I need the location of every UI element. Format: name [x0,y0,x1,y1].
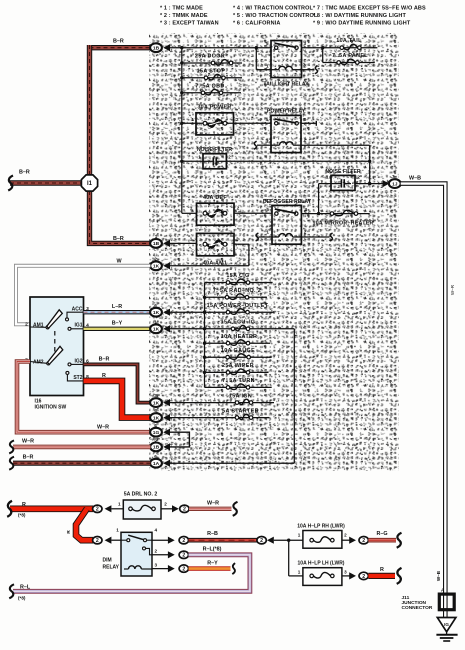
svg-text:1: 1 [154,319,157,324]
wire R-G [368,538,396,543]
svg-text:* 5 : W/O TRACTION CONTROL: * 5 : W/O TRACTION CONTROL [233,13,318,19]
svg-text:1: 1 [118,501,121,506]
DIM relay coil [124,568,129,570]
svg-text:1K: 1K [153,415,160,421]
accessory fuse rail [204,283,206,388]
power relay coil [271,144,280,146]
svg-text:R–Y: R–Y [207,560,218,566]
svg-text:4: 4 [155,527,158,532]
svg-text:5: 5 [154,438,157,443]
wire W-R DRL out [189,507,231,511]
ignition switch link dashes [54,331,56,353]
fuse 25A DOOR [182,62,242,64]
paper halftone texture [149,33,399,471]
svg-text:CONNECTOR: CONNECTOR [402,605,433,611]
svg-text:* 7 : TMC MADE EXCEPT 5S–FE W/: * 7 : TMC MADE EXCEPT 5S–FE W/O ABS [313,5,426,11]
svg-text:R–B: R–B [207,531,218,537]
connector 1J [383,180,390,187]
svg-text:R–G: R–G [376,531,387,537]
connector 1B top [150,43,162,52]
svg-text:3: 3 [304,41,307,46]
ground IG [437,618,456,632]
ignition switch ACC contact [66,318,69,321]
svg-text:5A STARTER: 5A STARTER [222,408,259,414]
svg-text:1A: 1A [153,461,160,467]
svg-text:RELAY: RELAY [103,564,120,570]
wire DIM pin3 out [152,568,168,570]
ignition switch IG2 contact [68,363,71,366]
svg-text:2: 2 [304,138,307,143]
svg-text:10A GAUGE: 10A GAUGE [221,348,255,354]
wire R DRL feed [10,505,93,512]
wire 40A AM1 pin2 to 1K-2 [234,243,249,245]
svg-text:1: 1 [298,569,301,574]
node 2 R-Y [179,565,188,572]
svg-text:W–R: W–R [207,501,219,507]
svg-text:IG2: IG2 [74,359,82,365]
wire R ST2 [84,381,151,418]
svg-text:DEFOGGER RELAY: DEFOGGER RELAY [263,199,312,205]
svg-text:R: R [102,373,106,379]
wire defogger relay pin3 junction [301,213,318,215]
svg-text:2: 2 [182,553,185,559]
node 2 R-G [359,537,368,544]
svg-text:2: 2 [236,117,239,122]
svg-text:* 2 : TMMK MADE: * 2 : TMMK MADE [160,13,208,19]
svg-text:1B: 1B [153,445,160,451]
svg-text:10A H–LP LH (LWR): 10A H–LP LH (LWR) [298,560,345,566]
svg-text:1J: 1J [392,181,398,187]
svg-text:2: 2 [96,538,99,544]
ignition switch AM2 contact [30,362,47,364]
svg-text:B–R: B–R [19,170,30,176]
noise filter 1 [182,160,203,162]
svg-text:ST2: ST2 [73,375,82,381]
fuse 7.5A TURN [205,386,272,388]
wire R-Y [189,566,231,571]
svg-text:2: 2 [155,549,158,554]
svg-text:W: W [116,258,122,264]
fuse 40A DEF [197,203,235,225]
junction connector J11 [439,594,454,610]
svg-text:1B: 1B [153,46,160,52]
svg-text:7: 7 [392,174,395,179]
svg-text:1: 1 [191,117,194,122]
fuse 15A CIG [205,282,273,284]
svg-text:IG1: IG1 [74,323,82,329]
svg-text:5: 5 [266,117,269,122]
svg-text:15A ECU–IG: 15A ECU–IG [221,319,256,325]
wire R-L to bottom run [13,555,250,592]
wire H-LP LH branch [288,540,290,576]
wire defogger relay pin1 stub [259,236,273,238]
wire defogger relay pin2 stub [301,236,329,238]
svg-text:7. 5A TURN: 7. 5A TURN [222,378,255,384]
svg-text:DIM: DIM [103,557,112,563]
fuse 7.5A RAD-NO.2 [205,296,268,298]
svg-text:1: 1 [190,237,193,242]
svg-text:7. 5A RAD–NO. 2: 7. 5A RAD–NO. 2 [213,288,261,294]
fuse 10A MIRROR-HEATER [319,213,370,215]
svg-text:W–R: W–R [22,438,34,444]
svg-text:R–L(*8): R–L(*8) [203,546,222,552]
svg-text:* 3 : EXCEPT TAIWAN: * 3 : EXCEPT TAIWAN [160,20,219,26]
svg-text:2: 2 [303,63,306,68]
connector 1G pin4 [150,428,162,437]
noise filter 2 [331,175,355,190]
fuse 40A AM1 [170,242,197,244]
wire R-B [189,538,258,543]
svg-text:1K: 1K [153,400,160,406]
fuse 10A HEATER [205,342,271,344]
svg-text:2: 2 [362,538,365,544]
svg-text:W–B: W–B [436,570,441,581]
svg-text:5A DRL NO. 2: 5A DRL NO. 2 [124,491,158,497]
svg-text:25A WIPER: 25A WIPER [222,363,254,369]
svg-text:POWER RELAY: POWER RELAY [267,109,306,115]
svg-text:3: 3 [154,393,157,398]
svg-text:3: 3 [304,117,307,122]
fuse 15A STOP [182,77,242,79]
fuse 25A WIPER [205,371,269,373]
fuse 15A POWER-OUTLET [170,311,274,313]
wire taillight relay coil feed [255,46,258,49]
feed rail [181,48,183,214]
wire B-R battery feed [10,180,90,185]
svg-text:ACC: ACC [72,306,83,312]
svg-text:(*8): (*8) [18,513,26,518]
wire power relay pin1 stub [257,144,271,146]
svg-text:2: 2 [182,538,185,544]
svg-text:TAILLIGHT RELAY: TAILLIGHT RELAY [263,82,309,88]
main feed line from 1B [170,47,271,49]
svg-text:I1: I1 [87,181,93,187]
svg-text:3: 3 [155,563,158,568]
DIM relay contacts [121,539,127,541]
svg-text:R: R [22,502,26,508]
svg-text:1K: 1K [153,310,160,316]
svg-text:1K: 1K [153,327,160,333]
svg-text:15A POWER–OUTLET: 15A POWER–OUTLET [207,303,269,309]
connector 1A pin6 [150,459,162,468]
wire power relay pin2 to rail [301,144,370,146]
wire power relay pin3 stub [301,122,316,124]
svg-text:2: 2 [154,256,157,261]
svg-text:2: 2 [164,501,167,506]
fuse 15A IGN [170,402,274,404]
svg-text:30A POWER: 30A POWER [197,104,231,110]
fuse 10A TAIL [302,47,378,49]
connector 1K pin8 [150,413,162,422]
connector 1K pin6 [150,308,162,317]
ignition switch IG1 contact [68,327,71,330]
wire 1A-6 to IG1 rail [170,462,294,464]
svg-text:1: 1 [190,206,193,211]
svg-text:15A CIG: 15A CIG [226,273,249,279]
svg-text:B–Y: B–Y [112,321,123,327]
svg-text:1: 1 [266,139,269,144]
fuse 10A GAUGE [205,356,272,358]
node 2 R-L [179,551,188,558]
svg-text:(*8): (*8) [18,596,26,601]
svg-text:2: 2 [228,155,231,160]
svg-text:1: 1 [298,532,301,537]
svg-text:7. 5A OBD: 7. 5A OBD [195,83,224,89]
svg-text:15A IGN: 15A IGN [229,393,252,399]
fuse 15A ECU-IG [170,328,294,330]
node 2 DRL in [93,505,102,512]
svg-text:2: 2 [96,507,99,513]
connector 1K pin3 [150,398,162,407]
wire DIM pin2 out [152,554,168,556]
svg-text:R: R [66,530,72,534]
wire W-R AM2 [17,362,150,433]
connector 1B pin1 [150,239,162,248]
svg-text:2: 2 [182,567,185,573]
fuse 5A STARTER [170,417,270,419]
svg-text:10A TAIL: 10A TAIL [336,38,362,44]
fuse 30A POWER [182,122,271,124]
wire L-R ACC [84,310,151,314]
wire W-B to ground [401,184,446,618]
node I1 junction [81,175,97,191]
svg-text:W–R: W–R [97,424,109,430]
connector 1K pin1 [150,324,162,333]
svg-text:2: 2 [362,574,365,580]
svg-text:1: 1 [266,63,269,68]
svg-text:2: 2 [237,206,240,211]
svg-text:IGNITION SW: IGNITION SW [35,404,67,410]
svg-text:W–R: W–R [450,284,455,295]
svg-text:10A H–LP RH (LWR): 10A H–LP RH (LWR) [297,523,345,529]
svg-text:* 4 : W/ TRACTION CONTROL: * 4 : W/ TRACTION CONTROL [233,5,314,11]
svg-text:NOISE FILTER: NOISE FILTER [325,169,361,175]
svg-text:B–R: B–R [113,38,124,44]
svg-text:2: 2 [183,507,186,513]
svg-text:* 8 : W/ DAYTIME RUNNING LIGHT: * 8 : W/ DAYTIME RUNNING LIGHT [313,13,406,19]
svg-text:IG: IG [444,622,449,627]
ignition switch I16 [30,297,84,396]
connector 1B pin5 [150,443,162,452]
svg-text:1G: 1G [153,430,160,436]
taillight relay coil [271,69,279,71]
fuse 7.5A OBD [182,92,241,94]
svg-text:2: 2 [304,230,307,235]
defogger relay coil [272,236,279,238]
svg-text:1: 1 [116,527,119,532]
svg-text:2: 2 [25,321,28,327]
wire R headlight [368,573,395,579]
wire W from ignition switch [16,266,150,325]
node 2 R-B right [257,537,266,544]
node 2 R out [359,572,368,579]
wire taillight relay pin2 stub [302,69,315,71]
svg-text:1: 1 [326,175,329,180]
svg-text:B–R: B–R [99,356,110,362]
svg-text:7. 5A PANEL: 7. 5A PANEL [332,53,368,59]
svg-text:1: 1 [198,155,201,160]
svg-text:B–R: B–R [113,236,124,242]
connector 1K pin2 [150,261,162,270]
svg-text:R: R [380,567,384,573]
node 2 DIM in [93,537,102,544]
svg-text:W–B: W–B [409,175,421,181]
svg-text:* 6 : CALIFORNIA: * 6 : CALIFORNIA [233,20,280,26]
svg-text:10A HEATER: 10A HEATER [221,334,257,340]
svg-text:1: 1 [266,230,269,235]
svg-text:1B: 1B [153,241,160,247]
wire jumper 1G to 1B [170,432,189,447]
svg-text:6: 6 [154,303,157,308]
svg-text:1K: 1K [153,264,160,270]
wire B-R to 1A-6 [13,461,150,466]
wire B-R IG2 [84,364,151,402]
svg-text:40A DEF: 40A DEF [203,195,227,201]
svg-text:25A DOOR: 25A DOOR [195,54,225,60]
svg-text:2: 2 [260,538,263,544]
svg-text:5: 5 [266,41,269,46]
ignition switch AM1 contact [30,326,46,328]
svg-text:3: 3 [305,207,308,212]
node 2 R-B left [179,537,188,544]
svg-text:5: 5 [266,207,269,212]
svg-text:15A STOP: 15A STOP [197,68,226,74]
wire B-Y IG1 [84,327,151,331]
svg-text:NOISE FILTER: NOISE FILTER [197,147,233,153]
svg-text:3: 3 [344,569,347,574]
wire DIM pin4 out [152,539,168,541]
svg-text:R–L: R–L [20,585,31,591]
svg-text:4: 4 [154,423,157,428]
wire 40A DEF to defogger relay [234,212,272,214]
svg-text:2: 2 [357,175,360,180]
fuse 7.5A PANEL [322,48,324,63]
svg-text:2: 2 [344,532,347,537]
svg-text:1: 1 [155,234,158,239]
svg-text:* 1 : TMC MADE: * 1 : TMC MADE [160,5,203,11]
wire noise filter 1 to rail [226,160,369,162]
node 2 DRL out [172,505,179,512]
ignition switch ST2 contact [66,371,69,374]
svg-text:2: 2 [236,237,239,242]
svg-text:10A MIRROR–HEATER: 10A MIRROR–HEATER [313,220,374,226]
svg-text:L–R: L–R [112,304,122,310]
svg-text:6: 6 [154,454,157,459]
wire W-R to 1B-5 [13,445,150,450]
svg-text:* 9 : W/O DAYTIME RUNNING LIGH: * 9 : W/O DAYTIME RUNNING LIGHT [313,20,411,26]
svg-text:B–R: B–R [23,455,34,461]
svg-text:6: 6 [154,408,157,413]
